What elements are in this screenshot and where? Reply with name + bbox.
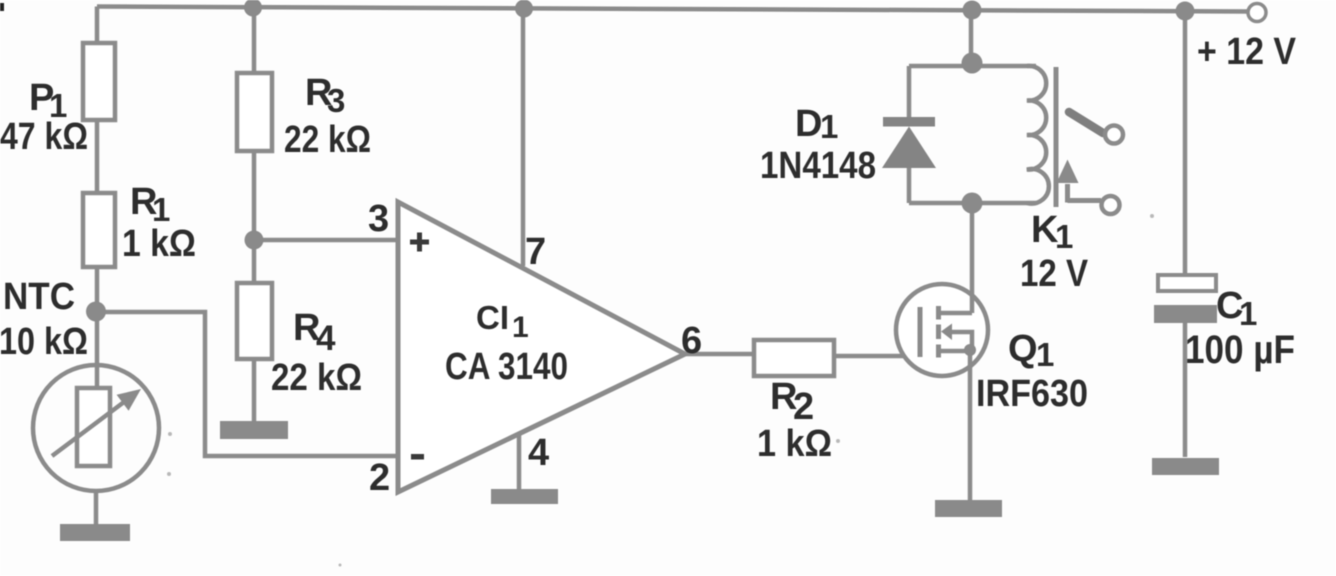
svg-text:CI: CI bbox=[476, 299, 509, 336]
svg-text:D: D bbox=[795, 103, 822, 145]
svg-text:22 kΩ: 22 kΩ bbox=[271, 357, 362, 399]
svg-text:2: 2 bbox=[793, 386, 814, 428]
svg-text:1: 1 bbox=[1036, 336, 1054, 373]
svg-text:2: 2 bbox=[369, 457, 390, 499]
svg-text:+ 12 V: + 12 V bbox=[1197, 31, 1297, 73]
svg-text:CA 3140: CA 3140 bbox=[445, 346, 568, 388]
svg-text:1: 1 bbox=[820, 108, 838, 145]
svg-text:1 kΩ: 1 kΩ bbox=[757, 423, 832, 465]
svg-text:IRF630: IRF630 bbox=[976, 373, 1088, 415]
svg-text:4: 4 bbox=[316, 319, 336, 358]
svg-text:3: 3 bbox=[368, 198, 389, 240]
svg-text:1 kΩ: 1 kΩ bbox=[122, 223, 196, 265]
svg-text:1: 1 bbox=[1239, 295, 1257, 332]
svg-text:22 kΩ: 22 kΩ bbox=[284, 119, 371, 161]
svg-text:10 kΩ: 10 kΩ bbox=[0, 321, 88, 363]
svg-text:4: 4 bbox=[528, 432, 549, 474]
svg-text:NTC: NTC bbox=[3, 276, 75, 318]
svg-text:3: 3 bbox=[327, 82, 345, 119]
svg-text:100 µF: 100 µF bbox=[1185, 328, 1295, 372]
svg-text:47 kΩ: 47 kΩ bbox=[0, 116, 88, 158]
svg-text:Q: Q bbox=[1008, 328, 1038, 370]
svg-text:6: 6 bbox=[681, 320, 702, 362]
svg-text:1: 1 bbox=[512, 311, 529, 344]
svg-text:1N4148: 1N4148 bbox=[760, 145, 876, 187]
svg-text:7: 7 bbox=[525, 231, 546, 273]
svg-text:12 V: 12 V bbox=[1020, 253, 1089, 295]
svg-text:1: 1 bbox=[1055, 218, 1073, 255]
